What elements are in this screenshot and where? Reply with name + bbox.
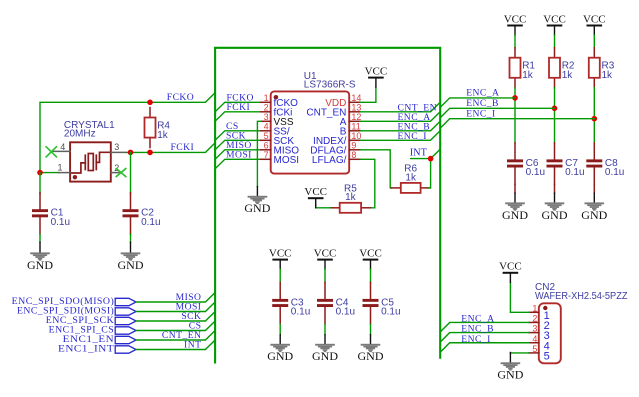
junction at R4 bottom / FCKI — [147, 150, 153, 156]
svg-text:0.1u: 0.1u — [336, 307, 355, 318]
U1 pin 11 (B) — [340, 122, 361, 138]
svg-text:5: 5 — [532, 344, 537, 354]
wire CS from port to bus — [136, 321, 215, 331]
crystal CRYSTAL1 20MHz — [64, 120, 115, 181]
svg-text:LFLAG/: LFLAG/ — [312, 155, 347, 166]
svg-text:2: 2 — [264, 103, 269, 113]
svg-text:1k: 1k — [157, 130, 169, 141]
svg-text:ENC_B: ENC_B — [466, 98, 499, 109]
wire ENC_B from bus to R2 — [440, 108, 554, 118]
wire ENC_I from bus to CN2 pin 4 — [440, 343, 529, 353]
svg-text:13: 13 — [351, 103, 361, 113]
svg-text:ENC_A: ENC_A — [466, 88, 499, 99]
ground symbol (below C8) — [581, 193, 607, 222]
ground symbol (below C7) — [542, 193, 568, 222]
svg-text:4: 4 — [264, 122, 269, 132]
ground symbol (below C3) — [267, 335, 293, 364]
wire VCC to R1 — [514, 35, 516, 48]
svg-text:GND: GND — [542, 208, 568, 222]
U1 pin 14 (VDD) — [325, 93, 361, 109]
wire ENC_I from U1 to bus — [360, 131, 440, 141]
U1 pin 10 (INDEX/) — [313, 131, 361, 147]
svg-text:MOSI: MOSI — [226, 150, 252, 161]
ground symbol (VSS) — [244, 187, 270, 216]
capacitor C5 0.1u — [363, 282, 401, 324]
wire C4 to GND — [324, 324, 326, 334]
VCC supply symbol (above C5) — [359, 248, 382, 270]
junction at crystal pin3 / C2 — [128, 150, 134, 156]
wire ENC_A from bus to R1 — [440, 98, 515, 108]
svg-text:GND: GND — [581, 208, 607, 222]
wire FCKO net (crystal pin1 to bus, R4 top) — [40, 93, 215, 173]
wire SCK from port to bus — [136, 312, 215, 322]
wire ENC_I from bus to R3 — [440, 119, 594, 129]
VCC supply symbol (R5 pull-up) — [304, 186, 327, 208]
U1 pin 3 (VSS) — [261, 112, 294, 128]
wire FCKI from bus to U1 pin 2 — [215, 112, 261, 122]
wire crystal pin1 to FCKO corner — [40, 172, 58, 174]
wire VCC to C5 — [370, 269, 372, 282]
svg-text:VCC: VCC — [583, 13, 606, 25]
ground symbol (CN2 pin5) — [497, 353, 523, 382]
svg-text:6: 6 — [264, 141, 269, 151]
port pin ENC_SPI_SCK — [46, 315, 136, 326]
no-connect X on crystal pin 4 — [46, 147, 56, 157]
junction at crystal pin1 / C1 / FCKO — [37, 170, 43, 176]
svg-text:5: 5 — [264, 131, 269, 141]
capacitor C8 0.1u — [586, 143, 624, 185]
op IC U1 LS7366R-S body — [271, 71, 356, 173]
svg-text:1k: 1k — [602, 70, 614, 81]
svg-text:VCC: VCC — [269, 248, 292, 260]
ground symbol (below C5) — [358, 335, 384, 364]
wire INT from port to bus — [136, 340, 215, 350]
capacitor C2 0.1u — [123, 193, 161, 235]
svg-text:VCC: VCC — [499, 261, 522, 273]
U1 pin 1 (fCKO) — [261, 93, 298, 109]
svg-text:GND: GND — [267, 349, 293, 363]
svg-text:VCC: VCC — [359, 248, 382, 260]
VCC supply symbol (above C4) — [314, 248, 337, 270]
wire FCKI net (crystal pin3 - C2 - R4 bottom - bus) — [126, 143, 215, 153]
wire VCC to R2 — [554, 35, 556, 48]
wire CNT_EN from port to bus — [136, 331, 215, 341]
VCC supply symbol (CN2 pin1) — [499, 261, 522, 283]
svg-text:GND: GND — [502, 208, 528, 222]
junction INT / R6 — [428, 156, 434, 162]
svg-text:14: 14 — [351, 93, 361, 103]
wire C3 to GND — [279, 324, 281, 334]
svg-text:0.1u: 0.1u — [565, 167, 584, 178]
wire CN2 pin 5 to GND — [510, 352, 529, 354]
VCC supply symbol (above C3) — [269, 248, 292, 270]
capacitor C7 0.1u — [547, 143, 585, 185]
svg-text:5: 5 — [544, 350, 550, 362]
wire MOSI from port to bus — [136, 302, 215, 312]
junction ENC_A / R1 / C6 — [512, 95, 518, 101]
svg-text:1k: 1k — [405, 172, 417, 183]
svg-text:0.1u: 0.1u — [605, 167, 624, 178]
CN2 pin 3 — [529, 324, 550, 342]
U1 pin 2 (fCKi) — [261, 103, 293, 119]
svg-text:1: 1 — [57, 163, 62, 173]
crystal pin 2 stub (NC) — [111, 163, 121, 173]
junction at R4 top / FCKO — [147, 100, 153, 106]
wire LFLAG/ (pin 8) down to R5 — [360, 159, 375, 208]
resistor R2 1k — [549, 48, 575, 88]
CN2 pin 4 — [529, 334, 550, 352]
svg-text:VCC: VCC — [304, 186, 327, 198]
svg-text:1k: 1k — [345, 192, 357, 203]
port pin ENC_SPI_SDO(MISO) — [12, 296, 136, 307]
ground symbol (below C4) — [312, 335, 338, 364]
wire R3 to junction and C8 — [593, 88, 595, 143]
svg-text:VCC: VCC — [543, 13, 566, 25]
svg-text:GND: GND — [312, 349, 338, 363]
U1 pin 12 (A) — [340, 112, 362, 128]
svg-text:1k: 1k — [562, 70, 574, 81]
svg-text:1k: 1k — [522, 70, 534, 81]
svg-text:VCC: VCC — [365, 66, 388, 78]
svg-text:WAFER-XH2.54-5PZZ: WAFER-XH2.54-5PZZ — [535, 291, 628, 302]
svg-text:1: 1 — [264, 93, 269, 103]
port pin ENC1_EN — [63, 334, 136, 345]
CN2 pin 5 — [529, 344, 550, 362]
wire C1 to junction — [39, 173, 41, 194]
ground symbol (below C6) — [502, 193, 528, 222]
resistor R5 1k — [330, 184, 370, 213]
wire C7 to GND — [554, 184, 556, 193]
svg-text:INT: INT — [410, 148, 428, 159]
junction ENC_B / R2 / C7 — [552, 106, 558, 112]
svg-text:ENC_I: ENC_I — [398, 131, 427, 142]
svg-text:12: 12 — [351, 112, 361, 122]
wire SCK from bus to U1 — [215, 140, 261, 150]
wire VSS (pin 3) to GND — [257, 121, 260, 186]
svg-text:GND: GND — [244, 201, 270, 215]
port pin ENC1_INT — [58, 343, 136, 354]
svg-text:GND: GND — [358, 349, 384, 363]
wire VCC to C4 — [324, 269, 326, 282]
VCC supply symbol (above R3) — [583, 13, 606, 35]
wire R1 to junction and C6 — [514, 88, 516, 143]
wire R6 to INT junction and bus — [428, 149, 440, 188]
wire C5 to GND — [370, 324, 372, 334]
U1 pin 9 (DFLAG/) — [310, 141, 360, 157]
svg-text:GND: GND — [497, 368, 523, 382]
svg-text:MOSI: MOSI — [274, 155, 300, 166]
svg-text:FCKI: FCKI — [227, 102, 251, 113]
svg-text:9: 9 — [351, 141, 356, 151]
U1 pin 5 (SCK) — [261, 131, 295, 147]
svg-text:ENC1_INT: ENC1_INT — [58, 343, 114, 354]
CN2 pin-1 marker dot — [543, 306, 547, 310]
capacitor C4 0.1u — [317, 282, 355, 324]
resistor R4 1k — [145, 108, 171, 148]
wire VCC to CN2 pin 1 — [510, 283, 529, 313]
svg-text:20MHz: 20MHz — [64, 129, 96, 140]
resistor R3 1k — [589, 48, 615, 88]
crystal pin 3 stub — [111, 142, 126, 152]
VCC supply symbol (above R2) — [543, 13, 566, 35]
bus loop (SPI/encoder signal bus) — [215, 48, 440, 363]
wire C6 to GND — [514, 184, 516, 193]
U1 pin 7 (MOSI) — [261, 150, 299, 166]
wire R5 to VCC — [316, 204, 331, 208]
junction ENC_I / R3 / C8 — [592, 116, 598, 122]
ground symbol (below C2) — [118, 242, 144, 272]
wire VDD (pin 14) to VCC — [360, 87, 376, 102]
svg-text:4: 4 — [532, 334, 537, 344]
svg-text:FCKI: FCKI — [171, 142, 195, 153]
U1 pin 8 (LFLAG/) — [312, 150, 360, 166]
CN2 pin 2 — [529, 314, 550, 332]
svg-text:GND: GND — [27, 258, 53, 272]
VCC supply symbol (above R1) — [504, 13, 527, 35]
svg-text:0.1u: 0.1u — [381, 307, 400, 318]
svg-text:4: 4 — [60, 142, 65, 152]
CN2 pin 1 — [529, 303, 550, 321]
svg-text:3: 3 — [264, 112, 269, 122]
wire ENC_B from bus to CN2 pin 3 — [440, 333, 529, 343]
wire C2 to junction — [130, 152, 132, 194]
svg-text:0.1u: 0.1u — [141, 217, 160, 228]
wire MISO from port to bus — [136, 293, 215, 303]
wire R2 to junction and C7 — [554, 88, 556, 143]
svg-text:11: 11 — [351, 122, 360, 132]
svg-text:3: 3 — [114, 142, 119, 152]
wire C8 to GND — [593, 184, 595, 193]
wire ENC_A from bus to CN2 pin 2 — [440, 322, 529, 332]
U1 pin 13 (CNT_EN) — [306, 103, 361, 119]
U1 pin 4 (SS/) — [261, 122, 290, 138]
capacitor C1 0.1u — [32, 193, 70, 235]
svg-text:2: 2 — [532, 314, 537, 324]
svg-text:LS7366R-S: LS7366R-S — [304, 79, 356, 90]
wire CS from bus to U1 — [215, 131, 261, 141]
crystal pin 1 stub — [57, 163, 70, 173]
ground symbol (below C1) — [27, 242, 53, 272]
svg-text:ENC_I: ENC_I — [466, 108, 495, 119]
resistor R6 1k — [391, 164, 430, 193]
svg-text:0.1u: 0.1u — [51, 217, 70, 228]
capacitor C3 0.1u — [272, 282, 310, 324]
wire FCKO from bus to U1 pin 1 — [215, 102, 261, 112]
wire CNT_EN from U1 to bus — [360, 102, 440, 112]
svg-text:GND: GND — [118, 258, 144, 272]
connector CN2 WAFER-XH2.54-5PZZ body — [535, 282, 628, 364]
svg-text:ENC_I: ENC_I — [461, 334, 490, 345]
wire MISO from bus to U1 — [215, 150, 261, 160]
svg-text:INT: INT — [184, 339, 201, 350]
wire VCC to C3 — [279, 269, 281, 282]
port pin ENC1_SPI_CS — [49, 324, 136, 335]
svg-text:FCKO: FCKO — [167, 92, 194, 103]
svg-text:VCC: VCC — [504, 13, 527, 25]
U1 pin 6 (MISO) — [261, 141, 299, 157]
wire INT label stub — [411, 158, 431, 160]
U1 pin-1 marker dot — [274, 95, 279, 100]
wire VCC to R3 — [593, 35, 595, 48]
VCC supply symbol (U1 VDD) — [365, 66, 388, 88]
wire C1 to GND — [39, 234, 41, 242]
crystal pin 4 stub (NC) — [52, 142, 70, 152]
svg-text:3: 3 — [532, 324, 537, 334]
svg-text:0.1u: 0.1u — [291, 307, 310, 318]
svg-text:7: 7 — [264, 150, 269, 160]
wire DFLAG/ (pin 9) down to R6 — [360, 150, 391, 188]
no-connect X on crystal pin 2 — [116, 169, 125, 177]
wire MOSI from bus to U1 — [215, 159, 261, 169]
wire C2 to GND — [130, 234, 132, 242]
wire ENC_B from U1 to bus — [360, 121, 440, 131]
wire ENC_A from U1 to bus — [360, 112, 440, 122]
resistor R1 1k — [510, 48, 536, 88]
port pin ENC_SPI_SDI(MOSI) — [17, 305, 136, 316]
svg-text:VCC: VCC — [314, 248, 337, 260]
svg-text:0.1u: 0.1u — [526, 167, 545, 178]
svg-text:8: 8 — [351, 150, 356, 160]
capacitor C6 0.1u — [507, 143, 545, 185]
svg-text:1: 1 — [532, 303, 537, 313]
